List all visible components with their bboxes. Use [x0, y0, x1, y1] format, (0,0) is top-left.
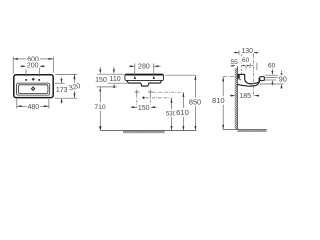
drain symbol [31, 86, 36, 91]
left ext lines of middle [97, 74, 128, 87]
dash-dot line fixing level to 610 [153, 91, 182, 93]
svg-text:280: 280 [138, 64, 150, 71]
svg-text:710: 710 [94, 104, 106, 111]
drain center diamond [142, 96, 145, 99]
wall hatch [235, 68, 238, 129]
svg-text:60: 60 [268, 62, 276, 69]
dim 200 arrowheads [21, 65, 26, 67]
outer rect of basin top view [14, 75, 53, 98]
floor line middle [100, 130, 196, 132]
svg-text:60: 60 [242, 57, 250, 64]
dim 710 vertical [99, 87, 101, 130]
basin profile: ledge + inner bowl [237, 74, 259, 83]
dim 185 [230, 95, 256, 97]
fixing centerline dash-dot [223, 76, 241, 78]
dim 600 line [13, 57, 53, 74]
body below rim with drain [127, 81, 162, 87]
svg-text:200: 200 [27, 63, 39, 70]
dim 173 arrows and exts [55, 77, 65, 103]
fixing dashed ext [240, 54, 242, 74]
dim 850 vertical [194, 75, 196, 130]
svg-text:610: 610 [176, 108, 189, 117]
svg-text:480: 480 [27, 104, 39, 111]
dim 320 line [55, 74, 77, 98]
drain axis dash-dot [252, 54, 254, 96]
tap hole dots [25, 79, 40, 81]
dim 280 [129, 63, 161, 77]
dim 480 arrowheads [17, 105, 22, 107]
dim 480 line [17, 99, 49, 109]
svg-text:185: 185 [239, 93, 251, 100]
svg-text:530: 530 [166, 111, 177, 118]
rim bar [125, 74, 164, 80]
dash-dot line drain level to 530 [146, 97, 172, 99]
wall face line [236, 67, 238, 130]
dim 600 arrowheads [13, 58, 18, 60]
ledge underside [237, 79, 240, 80]
dim 610 vertical [182, 92, 184, 130]
fixing bolt [237, 74, 239, 78]
dim 110 arrows [113, 67, 115, 70]
fixing crosses [134, 90, 152, 95]
svg-text:173: 173 [56, 87, 68, 94]
dim 200 line [20, 66, 45, 76]
svg-text:90: 90 [279, 74, 287, 83]
floor hatch right [237, 130, 266, 132]
ext rim top to 850 [165, 74, 195, 76]
floor hatch middle [123, 130, 165, 133]
dim 530 vertical [171, 98, 173, 130]
dim 810 [222, 77, 224, 129]
mounting hole dots [134, 77, 155, 79]
svg-text:850: 850 [189, 98, 201, 107]
inner basin double rounded rect [17, 83, 50, 95]
floor line right [223, 129, 267, 131]
dash-dot vertical ext from crosses [137, 95, 151, 110]
svg-text:130: 130 [241, 48, 253, 55]
dim 90 [260, 70, 284, 89]
svg-text:810: 810 [212, 96, 225, 105]
svg-text:110: 110 [110, 76, 121, 83]
dim 150 middle [131, 106, 157, 108]
dim 130 [234, 50, 259, 55]
basin profile: outer shell [237, 81, 259, 86]
center tap diamond [32, 78, 35, 81]
svg-text:150: 150 [138, 105, 150, 112]
dim 150 left arrows [99, 67, 101, 70]
svg-text:150: 150 [95, 77, 107, 84]
basin profile: front nose [260, 77, 265, 81]
